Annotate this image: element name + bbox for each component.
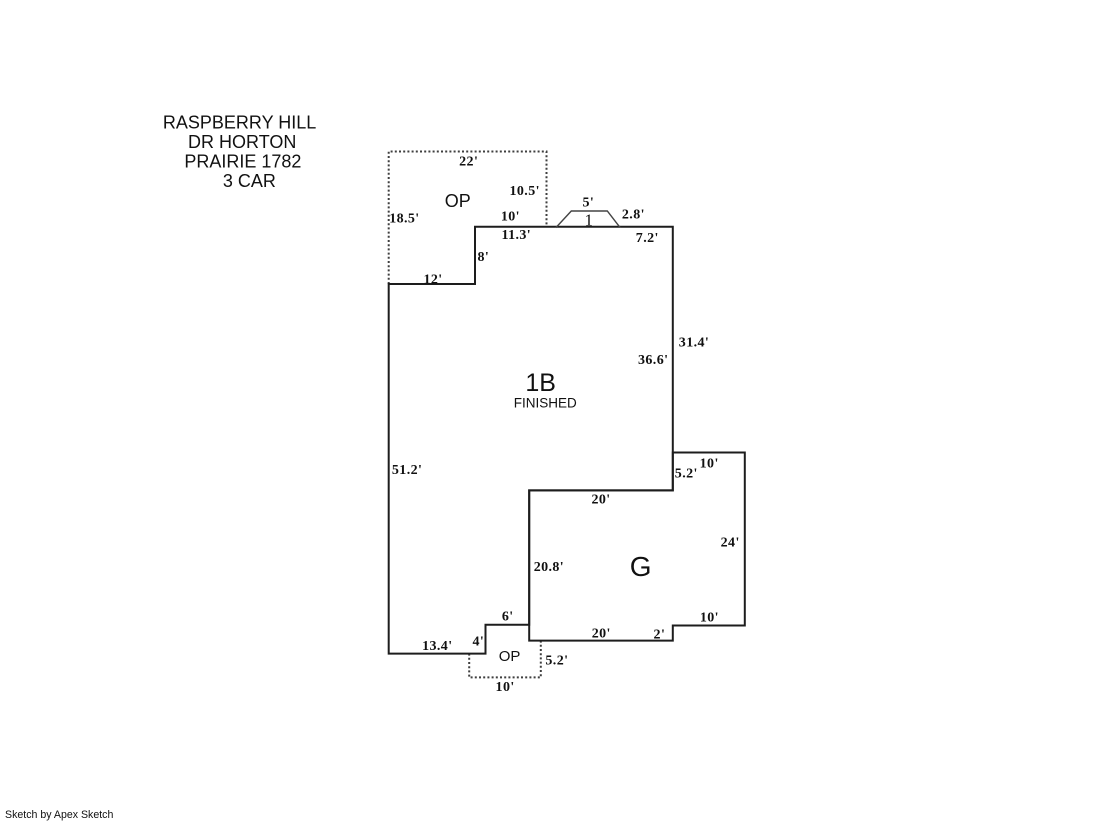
svg-text:RASPBERRY HILL: RASPBERRY HILL — [163, 113, 316, 133]
svg-text:7.2': 7.2' — [636, 231, 659, 246]
svg-text:8': 8' — [477, 250, 489, 265]
svg-text:FINISHED: FINISHED — [514, 395, 577, 410]
svg-text:10': 10' — [700, 456, 719, 471]
svg-text:1B: 1B — [525, 369, 556, 397]
svg-text:Sketch by Apex Sketch: Sketch by Apex Sketch — [5, 809, 113, 821]
svg-text:10.5': 10.5' — [510, 184, 540, 199]
svg-text:12': 12' — [423, 273, 442, 288]
svg-text:11.3': 11.3' — [501, 228, 531, 243]
svg-text:5.2': 5.2' — [545, 654, 568, 669]
svg-text:2': 2' — [654, 628, 666, 643]
svg-text:3 CAR: 3 CAR — [223, 171, 276, 191]
svg-text:36.6': 36.6' — [638, 353, 668, 368]
svg-text:5.2': 5.2' — [675, 466, 698, 481]
svg-text:18.5': 18.5' — [389, 212, 419, 227]
svg-text:DR HORTON: DR HORTON — [188, 132, 296, 152]
svg-text:20': 20' — [591, 492, 610, 507]
svg-text:10': 10' — [496, 680, 515, 695]
svg-text:1: 1 — [584, 210, 593, 229]
svg-text:PRAIRIE 1782: PRAIRIE 1782 — [184, 151, 301, 171]
svg-text:20.8': 20.8' — [534, 560, 564, 575]
svg-text:OP: OP — [499, 648, 521, 665]
svg-text:51.2': 51.2' — [392, 463, 422, 478]
svg-text:10': 10' — [700, 611, 719, 626]
svg-text:10': 10' — [501, 209, 520, 224]
garage G wall outline — [529, 453, 745, 641]
svg-text:20': 20' — [592, 626, 611, 641]
svg-text:22': 22' — [459, 154, 478, 169]
svg-text:6': 6' — [502, 610, 514, 625]
svg-text:OP: OP — [445, 191, 471, 211]
svg-text:2.8': 2.8' — [622, 208, 645, 223]
area 1B wall outline — [389, 227, 673, 654]
svg-text:31.4': 31.4' — [679, 335, 709, 350]
bay window 1 trapezoid — [556, 211, 620, 228]
open porch OP bottom dotted outline — [469, 641, 541, 678]
open porch OP top dotted outline — [389, 152, 547, 285]
svg-text:24': 24' — [721, 536, 740, 551]
svg-text:5': 5' — [582, 196, 594, 211]
svg-text:4': 4' — [472, 635, 484, 650]
svg-text:G: G — [630, 551, 652, 582]
svg-text:13.4': 13.4' — [422, 639, 452, 654]
